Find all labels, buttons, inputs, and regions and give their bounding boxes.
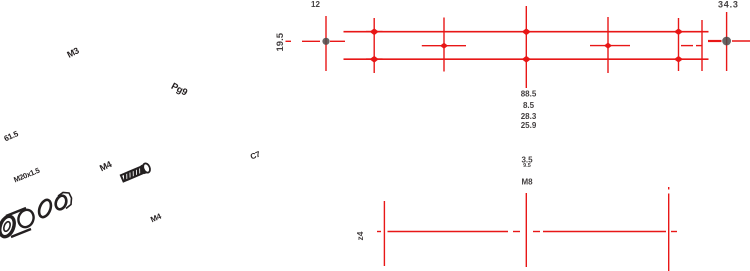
diamond tick at x526/top [522,28,531,35]
label M4 (near screw) [98,159,113,173]
screw head face ellipse [142,162,151,173]
nut body outline [58,193,72,209]
svg-text:M20x1.5: M20x1.5 [12,166,41,185]
diamond tick at x526/bottom [522,56,531,63]
label Pg9 (upper diagonal label) [169,81,189,98]
left hole gray dot [322,38,329,45]
tiny gray label at bottom drawing left [355,231,365,240]
svg-text:z4: z4 [355,231,365,240]
flange ellipse (left face) [0,214,17,239]
svg-text:M4: M4 [149,211,163,224]
flange hole [3,221,12,232]
svg-text:34.3: 34.3 [718,0,739,10]
body side lines [6,208,31,237]
product top outline line [344,31,709,33]
svg-text:8.5: 8.5 [523,101,535,110]
screw threads [123,167,144,181]
svg-text:C7: C7 [249,149,262,161]
mid cross at x608 [590,45,630,47]
svg-text:Pg9: Pg9 [169,81,189,98]
seal ring / nut [54,193,72,211]
svg-text:12: 12 [311,0,320,9]
right mounting hole cross vertical [726,12,728,71]
diamond tick at x374/top [370,28,379,35]
svg-text:9.5: 9.5 [523,163,531,169]
section line x=444 [443,18,445,72]
svg-text:M4: M4 [98,159,113,173]
mouth ellipse (right opening) [16,208,36,230]
svg-text:M8: M8 [521,178,533,187]
screw head side [141,164,148,174]
bottom horizontal centerline [377,231,381,233]
section line x=608 [607,17,609,73]
svg-text:M3: M3 [65,45,80,59]
diamond tick x678/bottom [674,56,683,63]
screw (threaded fastener, head upper right) [120,162,151,182]
bottom vertical x=668 [668,187,670,190]
left mounting hole cross vertical [325,16,327,71]
section line x=702 [701,20,703,71]
svg-text:88.5: 88.5 [521,90,537,99]
left mounting hole cross horizontal [286,40,292,42]
product bottom outline line [344,58,709,60]
label M20x1.5 (diagonal thread label) [12,166,41,185]
label M3 (top small diagonal label) [65,45,80,59]
svg-text:28.3: 28.3 [521,112,537,121]
mid centerline right portion [681,45,693,47]
right mounting hole cross horizontal [708,40,722,42]
label C (small mark right of exploded view) [249,149,262,161]
diamond tick x678/top [674,28,683,35]
center line x=526 upper part [525,6,527,88]
svg-text:25.9: 25.9 [521,121,537,130]
svg-text:19.5: 19.5 [275,32,286,51]
label 61.5 (diagonal dimension text) [3,129,21,143]
svg-text:61.5: 61.5 [3,129,21,143]
section line x=678.5 [678,18,680,71]
gland body (cup shaped part lower left) [0,208,36,239]
rotated dim text 9.5 (left of top drawing) [275,32,286,51]
diamond tick at x374/bottom [370,56,379,63]
right hole gray dot [722,37,731,46]
nut front face ellipse [54,194,68,211]
bottom vertical x=384 [383,201,385,266]
mid cross at x444 [422,45,466,47]
o-ring [37,198,53,219]
screw shaft [121,167,144,182]
section line x=374 [373,18,375,73]
bottom vertical x=526 (center line lower part) [525,193,527,267]
label (bottom middle small) [149,211,163,224]
